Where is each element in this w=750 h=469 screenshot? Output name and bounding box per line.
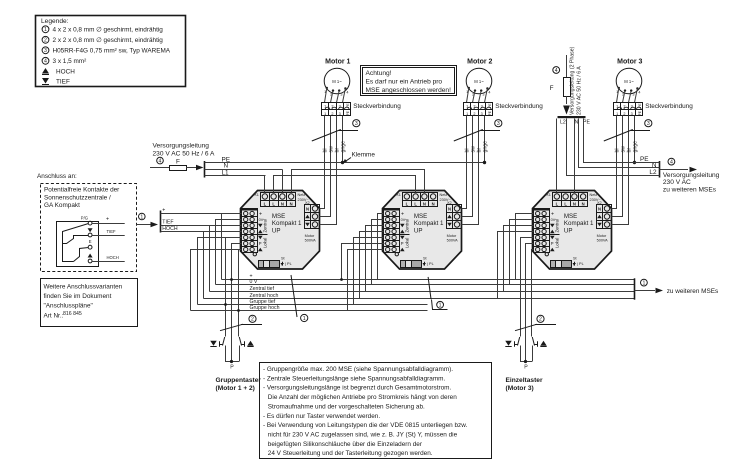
svg-text:Motor 3: Motor 3	[617, 59, 642, 66]
svg-text:Steckverbindung: Steckverbindung	[495, 103, 543, 110]
svg-text:+: +	[106, 217, 109, 223]
svg-text:3 x 1,5 mm²: 3 x 1,5 mm²	[53, 58, 87, 65]
svg-text:Zentral tief: Zentral tief	[250, 286, 275, 292]
svg-text:Versorgungsleitung (2 Phase): Versorgungsleitung (2 Phase)	[570, 46, 576, 115]
svg-text:0 V: 0 V	[250, 279, 258, 285]
svg-text:816 845: 816 845	[63, 311, 82, 317]
svg-text:Potentialfreie Kontakte der: Potentialfreie Kontakte der	[44, 187, 120, 194]
svg-text:H05RR-F4G 0,75 mm² sw, Typ WAR: H05RR-F4G 0,75 mm² sw, Typ WAREMA	[53, 48, 171, 55]
svg-text:TIEF: TIEF	[56, 79, 70, 86]
svg-text:gnge: gnge	[483, 141, 489, 153]
svg-text:- Zentrale Steuerleitungslänge: - Zentrale Steuerleitungslänge siehe Spa…	[263, 375, 445, 382]
svg-text:Weitere Anschlussvarianten: Weitere Anschlussvarianten	[44, 283, 123, 290]
svg-text:Motor 2: Motor 2	[467, 59, 492, 66]
svg-text:beigefügten Silikonschläuche ü: beigefügten Silikonschläuche über die Ei…	[268, 441, 423, 448]
svg-text:230 V AC 50 Hz / 6 A: 230 V AC 50 Hz / 6 A	[577, 66, 583, 115]
svg-text:Anschluss an:: Anschluss an:	[37, 173, 77, 180]
svg-text:Motor 1: Motor 1	[325, 59, 350, 66]
svg-text:3: 3	[647, 121, 650, 127]
svg-text:2 x 2 x 0,8 mm ∅ geschirmt, ei: 2 x 2 x 0,8 mm ∅ geschirmt, eindrähtig	[53, 37, 164, 44]
svg-text:HOCH: HOCH	[107, 255, 119, 260]
svg-text:3: 3	[44, 48, 47, 54]
svg-text:finden Sie im Dokument: finden Sie im Dokument	[44, 293, 112, 300]
svg-text:Klemme: Klemme	[352, 152, 376, 159]
svg-text:P: P	[524, 365, 528, 371]
svg-text:PE: PE	[583, 120, 590, 126]
svg-text:- Es dürfen nur Taster verwend: - Es dürfen nur Taster verwendet werden.	[263, 413, 380, 420]
svg-text:P: P	[230, 365, 234, 371]
svg-text:4: 4	[555, 68, 558, 74]
svg-text:Gruppentaster: Gruppentaster	[216, 377, 262, 384]
svg-text:MSE angeschlossen werden!: MSE angeschlossen werden!	[366, 87, 452, 94]
svg-text:(Motor 1 + 2): (Motor 1 + 2)	[216, 385, 255, 392]
svg-text:PE: PE	[640, 156, 649, 163]
svg-text:2: 2	[539, 317, 542, 323]
svg-text:GA Kompakt: GA Kompakt	[44, 202, 80, 209]
svg-text:E: E	[89, 239, 92, 244]
svg-text:Steckverbindung: Steckverbindung	[353, 103, 401, 110]
svg-text:1: 1	[439, 303, 442, 309]
svg-text:1: 1	[140, 214, 143, 220]
svg-text:- Gruppengröße max. 200 MSE (s: - Gruppengröße max. 200 MSE (siehe Spann…	[263, 366, 453, 373]
svg-text:Sonnenschutzzentrale /: Sonnenschutzzentrale /	[44, 194, 111, 201]
svg-text:4: 4	[159, 158, 162, 164]
svg-text:HOCH: HOCH	[162, 226, 178, 232]
svg-text:Versorgungsleitung: Versorgungsleitung	[153, 143, 210, 150]
svg-text:2: 2	[44, 38, 47, 44]
svg-text:(Motor 3): (Motor 3)	[506, 385, 534, 392]
svg-text:24 V Steuerleitung und der Tas: 24 V Steuerleitung und der Tasterleitung…	[268, 450, 433, 457]
svg-text:HOCH: HOCH	[56, 69, 75, 76]
svg-text:Art Nr.:: Art Nr.:	[44, 312, 64, 319]
svg-text:zu weiteren MSEs: zu weiteren MSEs	[667, 288, 719, 295]
svg-text:- Versorgungsleitungslänge ist: - Versorgungsleitungslänge ist begrenzt …	[263, 385, 451, 392]
svg-text:P/G: P/G	[81, 216, 88, 221]
svg-text:1: 1	[642, 280, 645, 286]
svg-text:"Anschlusspläne": "Anschlusspläne"	[44, 303, 93, 310]
svg-text:Versorgungsleitung: Versorgungsleitung	[663, 172, 720, 179]
svg-text:1: 1	[44, 27, 47, 33]
svg-text:L2: L2	[560, 120, 566, 126]
svg-text:N: N	[575, 120, 579, 126]
svg-text:3: 3	[355, 121, 358, 127]
svg-text:F: F	[550, 85, 554, 92]
svg-text:Achtung!: Achtung!	[366, 70, 392, 77]
svg-text:gnge: gnge	[341, 141, 347, 153]
svg-text:+: +	[162, 207, 165, 213]
svg-text:- Bei Verwendung von Leitungst: - Bei Verwendung von Leitungstypen die d…	[263, 422, 468, 429]
svg-text:4: 4	[44, 59, 47, 65]
svg-text:Einzeltaster: Einzeltaster	[506, 377, 543, 384]
svg-text:Die Anzahl der möglichen Antri: Die Anzahl der möglichen Antriebe pro St…	[268, 394, 457, 401]
svg-text:zu weiteren MSEs: zu weiteren MSEs	[663, 186, 717, 193]
svg-text:F: F	[176, 159, 180, 166]
svg-text:230 V AC 50 Hz / 6 A: 230 V AC 50 Hz / 6 A	[153, 151, 216, 158]
svg-text:Es darf nur ein Antrieb pro: Es darf nur ein Antrieb pro	[366, 79, 443, 86]
svg-text:Stromaufnahme und der vorgesch: Stromaufnahme und der vorgeschalteten Si…	[268, 403, 425, 410]
svg-text:Steckverbindung: Steckverbindung	[645, 103, 693, 110]
svg-text:3: 3	[497, 121, 500, 127]
svg-text:4: 4	[670, 159, 673, 165]
svg-text:4 x 2 x 0,8 mm ∅ geschirmt, ei: 4 x 2 x 0,8 mm ∅ geschirmt, eindrähtig	[53, 27, 164, 34]
svg-text:nicht für 230 V AC zugelassen: nicht für 230 V AC zugelassen sind, wie …	[268, 431, 458, 438]
svg-text:1: 1	[303, 316, 306, 322]
svg-text:Zentral hoch: Zentral hoch	[250, 293, 279, 299]
svg-text:TIEF: TIEF	[107, 229, 117, 234]
svg-text:230 V AC: 230 V AC	[663, 179, 691, 186]
svg-text:2: 2	[251, 317, 254, 323]
svg-text:Gruppe hoch: Gruppe hoch	[250, 305, 280, 311]
svg-text:gnge: gnge	[633, 141, 639, 153]
svg-text:Legende:: Legende:	[41, 18, 69, 25]
svg-text:TIEF: TIEF	[162, 220, 173, 226]
